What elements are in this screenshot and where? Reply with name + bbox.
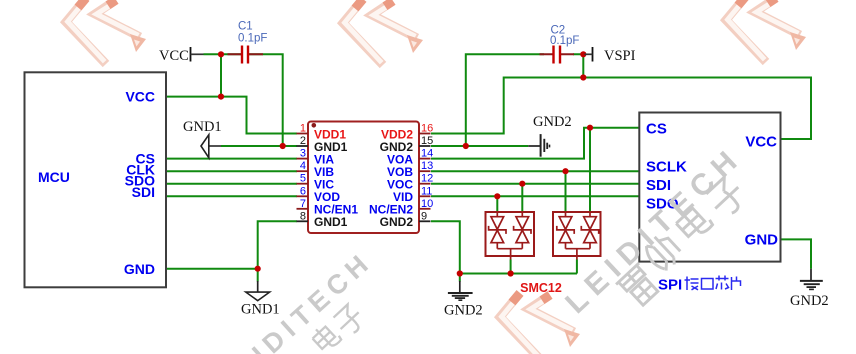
capacitor C2 bbox=[540, 25, 580, 64]
wire net SCLK: TVS branch bbox=[565, 171, 567, 212]
IC pin 10 stub bbox=[419, 208, 431, 210]
wire net SDO: MCU SDO to IC pin 5 bbox=[166, 183, 297, 185]
watermark text 电 right bbox=[672, 201, 713, 243]
watermark logo top-left bbox=[66, 0, 146, 64]
svg-text:SCLK: SCLK bbox=[646, 158, 687, 175]
svg-text:SDI: SDI bbox=[132, 184, 155, 200]
wire net GND1: junction down to ground symbol bbox=[257, 269, 259, 282]
svg-text:GND2: GND2 bbox=[380, 215, 414, 229]
IC pin 9 stub bbox=[419, 220, 431, 222]
wire net GND2: rail down to ground symbol bbox=[459, 274, 461, 282]
TVS diode D1a bbox=[489, 212, 506, 249]
svg-text:10: 10 bbox=[421, 198, 433, 210]
IC pin 13 stub bbox=[419, 170, 431, 172]
watermark text 电 bottom-left bbox=[310, 321, 342, 354]
TVS array SMC12 pack 1 bbox=[486, 212, 535, 260]
svg-text:15: 15 bbox=[421, 135, 433, 147]
svg-text:11: 11 bbox=[421, 185, 432, 197]
wire net SDI2: IC pin 12 to SPI SDI bbox=[431, 183, 640, 185]
power port VCC bbox=[159, 47, 204, 64]
svg-text:2: 2 bbox=[300, 135, 306, 147]
junction node TVS rail pack1 bbox=[508, 270, 514, 276]
svg-text:SMC12: SMC12 bbox=[520, 281, 562, 295]
ground GND1 arrow power port (at IC pin 2) bbox=[183, 119, 222, 158]
junction node SDO row TVS tap bbox=[494, 193, 500, 199]
svg-text:9: 9 bbox=[421, 210, 427, 222]
watermark logo top-middle bbox=[343, 0, 423, 65]
junction node VSPI rail bbox=[580, 74, 586, 80]
svg-text:GND2: GND2 bbox=[790, 293, 829, 309]
svg-text:MCU: MCU bbox=[38, 169, 70, 185]
svg-text:GND2: GND2 bbox=[533, 114, 572, 130]
wire net SDI: MCU SDI to IC pin 6 bbox=[166, 195, 297, 197]
svg-text:1: 1 bbox=[300, 123, 306, 135]
junction node VSPI at C2 bbox=[580, 51, 586, 57]
power port VSPI bbox=[585, 47, 636, 64]
ground GND2 earth symbol (bottom right) bbox=[790, 269, 829, 309]
svg-text:VCC: VCC bbox=[745, 134, 777, 151]
watermark text 雷 right bbox=[616, 263, 662, 309]
wire net GND2: IC pin 9 down to rail bbox=[431, 221, 460, 273]
svg-text:5: 5 bbox=[300, 173, 306, 185]
junction node GND2 pin15 row bbox=[463, 143, 469, 149]
wire net VCC: MCU VCC pin row to corner bbox=[166, 97, 297, 134]
svg-text:VSPI: VSPI bbox=[604, 48, 636, 64]
IC pin 4 stub bbox=[297, 170, 309, 172]
wire net CS2: TVS branch down from CS row bbox=[589, 128, 591, 212]
wire net VSPI: IC pin 16 to corner and top rail bbox=[431, 78, 811, 140]
IC pin 5 stub bbox=[297, 183, 309, 185]
wire net CS2: IC pin 14 up to SPI CS bbox=[431, 128, 640, 159]
SPI chip label SPI接口芯片 bbox=[658, 276, 741, 294]
TVS diode D2a bbox=[557, 212, 574, 249]
wire net SCLK: IC pin 13 to SPI SCLK bbox=[431, 170, 640, 172]
wire net GND2: C2 left plate to vertical drop to pin15 row bbox=[466, 54, 544, 146]
SPI chip box bbox=[639, 113, 780, 262]
watermark logo top-right bbox=[726, 0, 806, 62]
svg-text:LEIDITECH: LEIDITECH bbox=[212, 246, 378, 354]
svg-text:0.1pF: 0.1pF bbox=[550, 35, 579, 47]
wire net GND1: C1 right plate down to GND1 row bbox=[248, 54, 283, 146]
svg-text:4: 4 bbox=[300, 160, 306, 172]
IC pin 15 stub bbox=[419, 145, 431, 147]
IC pin-1 dot bbox=[312, 123, 317, 128]
IC pin 14 stub bbox=[419, 158, 431, 160]
wire net GND2: TVS pack2 bottom lead bbox=[576, 260, 578, 274]
svg-text:12: 12 bbox=[421, 173, 433, 185]
junction node VCC port row bbox=[218, 51, 224, 57]
wire net GND1: MCU GND row to junction bbox=[166, 268, 258, 270]
svg-text:GND1: GND1 bbox=[183, 119, 222, 135]
junction node SCLK row TVS tap bbox=[562, 168, 568, 174]
isolator IC U1 box bbox=[308, 122, 419, 234]
junction node GND2 rail corner bbox=[457, 270, 463, 276]
junction node MCU GND row bbox=[255, 266, 261, 272]
IC pin 11 stub bbox=[419, 195, 431, 197]
svg-text:SDI: SDI bbox=[646, 177, 671, 194]
svg-text:6: 6 bbox=[300, 185, 306, 197]
svg-text:CS: CS bbox=[646, 121, 667, 138]
svg-text:GND1: GND1 bbox=[314, 215, 348, 229]
TVS diode D1b bbox=[514, 212, 531, 249]
svg-text:0.1pF: 0.1pF bbox=[238, 33, 267, 45]
junction node MCU VCC row bbox=[218, 94, 224, 100]
TVS diode D2b bbox=[581, 212, 598, 249]
IC pin 6 stub bbox=[297, 195, 309, 197]
MCU box bbox=[25, 72, 167, 287]
svg-text:GND1: GND1 bbox=[241, 302, 280, 318]
capacitor C1 bbox=[228, 21, 268, 64]
watermark text 子 bottom-left bbox=[332, 303, 367, 338]
svg-text:GND2: GND2 bbox=[444, 303, 483, 319]
watermark text 子 right bbox=[704, 175, 749, 220]
IC pin 3 stub bbox=[297, 158, 309, 160]
wire net CLK: MCU CLK to IC pin 4 bbox=[166, 170, 297, 172]
ground GND1 triangle symbol (below MCU) bbox=[241, 281, 280, 318]
wire net CS: MCU CS to IC pin 3 bbox=[166, 158, 297, 160]
IC pin 2 stub bbox=[297, 145, 309, 147]
IC pin 16 stub bbox=[419, 133, 431, 135]
wire net GND1: arrow symbol to IC pin 2 bbox=[221, 145, 297, 147]
svg-text:13: 13 bbox=[421, 160, 433, 172]
wire net VCC: vertical drop from port row to MCU VCC row bbox=[220, 54, 222, 96]
svg-text:14: 14 bbox=[421, 148, 433, 160]
junction node SDI row TVS tap bbox=[519, 181, 525, 187]
svg-text:SPI: SPI bbox=[658, 277, 682, 294]
wire net GND1: junction up to IC pin 8 bbox=[258, 221, 297, 268]
svg-text:3: 3 bbox=[300, 148, 306, 160]
junction node GND1 row / C1 bbox=[280, 143, 286, 149]
wire net GND2: TVS bottom rail bbox=[460, 273, 577, 275]
wire net GND2: SPI GND pin to bottom-right ground bbox=[781, 239, 812, 268]
IC pin 1 stub bbox=[297, 133, 309, 135]
wire net SDO2: TVS branch bbox=[496, 196, 498, 212]
svg-text:7: 7 bbox=[300, 198, 306, 210]
wire net SDI2: TVS branch bbox=[521, 184, 523, 212]
svg-text:VCC: VCC bbox=[125, 89, 155, 105]
wire net VSPI: drop from C2/VSPI row bbox=[573, 54, 585, 77]
wire net GND2: TVS pack1 bottom lead bbox=[510, 260, 512, 274]
ground GND2 rotated earth symbol (at IC pin 15) bbox=[528, 114, 571, 157]
watermark logo bottom-middle bbox=[500, 293, 580, 354]
svg-text:VCC: VCC bbox=[159, 48, 189, 64]
junction node CS row TVS tap bbox=[587, 125, 593, 131]
IC pin 7 stub bbox=[297, 208, 309, 210]
watermark text 卯 right bbox=[641, 231, 684, 274]
svg-text:8: 8 bbox=[300, 210, 306, 222]
IC pin 8 stub bbox=[297, 220, 309, 222]
IC pin 12 stub bbox=[419, 183, 431, 185]
svg-text:GND: GND bbox=[745, 231, 779, 248]
TVS array SMC12 pack 2 bbox=[553, 212, 601, 260]
ground GND2 earth symbol (below TVS) bbox=[444, 281, 483, 319]
wire net GND2: IC pin 15 to ground symbol bbox=[431, 145, 528, 147]
wire net SDO2: IC pin 11 to SPI SDO bbox=[431, 195, 640, 197]
svg-text:16: 16 bbox=[421, 123, 433, 135]
wire net VCC: port to C1 left plate bbox=[204, 53, 243, 55]
svg-text:GND: GND bbox=[124, 261, 155, 277]
svg-text:C1: C1 bbox=[238, 21, 253, 33]
